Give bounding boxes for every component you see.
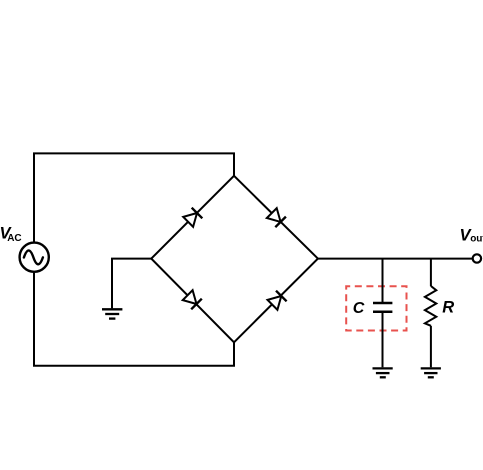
- svg-text:out: out: [470, 233, 483, 244]
- svg-text:R: R: [442, 299, 454, 317]
- svg-text:C: C: [353, 300, 365, 317]
- svg-text:AC: AC: [7, 233, 21, 244]
